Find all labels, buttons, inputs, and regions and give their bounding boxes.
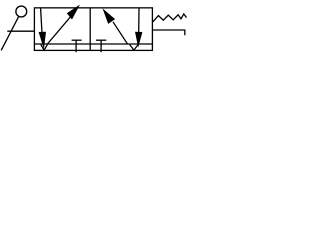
flow arrow B shaft (left cell, diagonal up): [47, 17, 70, 44]
valve position divider: [89, 8, 91, 51]
blocked port T left stem: [75, 40, 77, 52]
arrowhead B: [67, 5, 80, 20]
valve internal port-strip line: [34, 43, 152, 45]
blocked port T right stem: [100, 40, 102, 52]
blocked port T right crossbar: [96, 39, 106, 41]
arrowhead A: [39, 32, 46, 49]
exhaust triangle right: [130, 45, 138, 51]
lever arm: [1, 16, 19, 50]
lever link to body: [7, 30, 35, 32]
return spring: [153, 14, 187, 22]
lever knob circle: [16, 6, 27, 17]
flow arrow D shaft (right cell, down): [138, 8, 140, 33]
arrowhead C: [103, 8, 116, 24]
blocked port T left crossbar: [72, 39, 82, 41]
valve body outline V1: [34, 8, 152, 51]
pilot line L: [153, 30, 185, 35]
flow arrow C shaft (right cell, diagonal down): [113, 22, 127, 44]
flow arrow A shaft (left cell, down): [41, 8, 42, 33]
exhaust triangle left: [41, 45, 48, 51]
arrowhead D: [135, 32, 142, 48]
